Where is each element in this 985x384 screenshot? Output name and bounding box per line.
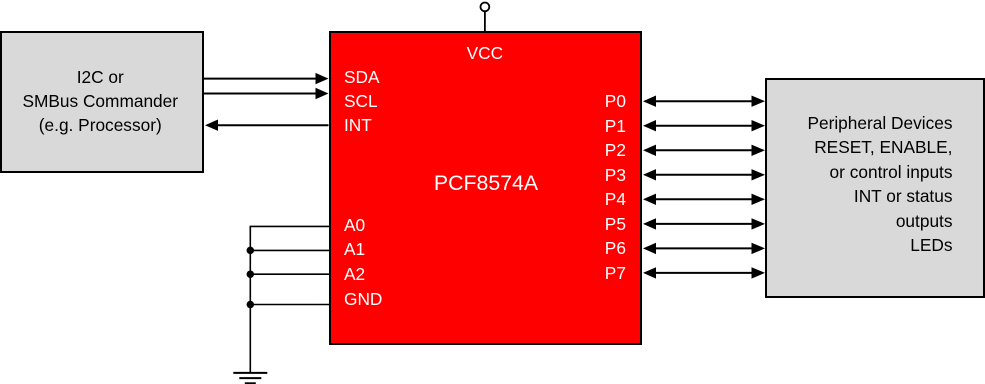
pin label A2 — [344, 262, 365, 286]
wire P4 bidirectional arrow — [643, 194, 765, 205]
ground symbol — [233, 373, 267, 383]
wire P0 bidirectional arrow — [643, 96, 765, 107]
pin label SDA — [344, 65, 380, 89]
label: I2C or SMBus Commander (e.g. Processor) — [0, 65, 202, 137]
pin label SCL — [344, 89, 378, 113]
wire GND — [250, 304, 330, 306]
wire INT with arrow into commander — [205, 120, 329, 131]
wire A0 — [250, 226, 330, 373]
wire SDA with arrow into PCF8574A — [203, 73, 329, 84]
junction dot A1 — [247, 247, 255, 255]
junction dot GND — [247, 301, 255, 309]
wire: VCC stub — [484, 11, 486, 33]
pin label P5 — [605, 212, 626, 236]
block: I2C/SMBus Commander — [0, 31, 204, 173]
pin label INT — [344, 113, 372, 137]
pin label P3 — [605, 163, 626, 187]
wire P2 bidirectional arrow — [643, 145, 765, 156]
wire P1 bidirectional arrow — [643, 120, 765, 131]
pin label A1 — [344, 237, 365, 261]
pin label P0 — [605, 89, 626, 113]
wire A2 — [250, 273, 330, 275]
pin label P2 — [605, 138, 626, 162]
wire A1 — [250, 249, 330, 251]
label: Peripheral Devices list — [743, 111, 953, 258]
pin label P4 — [605, 187, 626, 211]
pin label GND — [344, 287, 382, 311]
pin label P7 — [605, 261, 626, 285]
VCC terminal circle — [481, 3, 490, 12]
IC U1: PCF8574A block — [329, 31, 643, 345]
pin label P6 — [605, 236, 626, 260]
junction dot A2 — [247, 270, 255, 278]
pin label A0 — [344, 213, 365, 237]
wire P7 bidirectional arrow — [643, 267, 765, 278]
wire SCL with arrow into PCF8574A — [203, 88, 329, 99]
block: Peripheral Devices — [765, 78, 985, 298]
pin label P1 — [605, 114, 626, 138]
pin label VCC — [455, 41, 515, 65]
wire P5 bidirectional arrow — [643, 218, 765, 229]
wire P3 bidirectional arrow — [643, 169, 765, 180]
label: PCF8574A — [386, 170, 586, 196]
wire P6 bidirectional arrow — [643, 243, 765, 254]
